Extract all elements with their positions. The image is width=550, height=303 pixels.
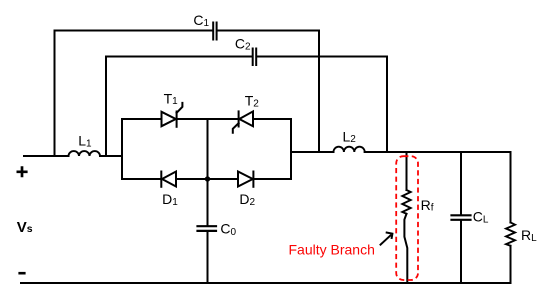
thyristor T1 bbox=[162, 112, 176, 126]
wire: L2 to load rail bbox=[365, 151, 511, 153]
diode D1 bbox=[160, 172, 162, 187]
capacitor C0 plates bbox=[198, 226, 217, 231]
svg-text:Vs: Vs bbox=[17, 219, 33, 236]
wire: right edge lower segment bbox=[510, 246, 512, 283]
svg-text:C2: C2 bbox=[235, 36, 251, 53]
diode D2 bbox=[238, 172, 253, 187]
inductor L1 bbox=[69, 151, 101, 156]
capacitor C1 plates bbox=[213, 23, 216, 40]
svg-text:Faulty Branch: Faulty Branch bbox=[289, 241, 375, 257]
wire: thyristor row right segment bbox=[253, 118, 291, 120]
thyristor T2 bbox=[239, 111, 253, 126]
svg-text:L2: L2 bbox=[343, 128, 357, 145]
svg-text:D2: D2 bbox=[239, 191, 255, 208]
wire: C1 right vertical drop bbox=[318, 31, 320, 153]
wire: bottom return bus bbox=[21, 282, 511, 284]
faulty branch dashed highlight box bbox=[396, 156, 418, 280]
wire: C2 left vertical riser bbox=[105, 57, 107, 157]
svg-text:T2: T2 bbox=[245, 93, 260, 110]
wire: C2 top horizontal right of cap bbox=[258, 56, 387, 58]
wire: diode row middle segment bbox=[176, 178, 238, 180]
wire: C1 left vertical riser bbox=[54, 31, 56, 157]
arrow to faulty branch bbox=[380, 232, 393, 245]
svg-text:Rf: Rf bbox=[421, 197, 434, 214]
wire: C1 top horizontal right of cap bbox=[218, 30, 319, 32]
wire: bridge right vertical bbox=[290, 119, 292, 179]
resistor RL bbox=[506, 223, 515, 246]
wire: bridge left vertical bbox=[121, 119, 123, 179]
capacitor C2 plates bbox=[253, 49, 257, 66]
svg-text:L1: L1 bbox=[78, 133, 92, 150]
wire: thyristor row middle segment bbox=[177, 118, 239, 120]
wire: diode row left segment bbox=[122, 178, 161, 180]
label + (source positive terminal) bbox=[17, 166, 28, 177]
wire: C2 right vertical drop bbox=[386, 57, 388, 153]
label - (source negative terminal) bbox=[18, 272, 25, 275]
wire: faulty branch upper segment bbox=[406, 152, 408, 190]
wire: center vertical (bridge mid to C0) bbox=[207, 119, 209, 225]
wire: C1 top horizontal left of cap bbox=[55, 30, 213, 32]
svg-text:CL: CL bbox=[473, 209, 489, 226]
inductor L2 bbox=[334, 147, 365, 152]
wire: C2 top horizontal left of cap bbox=[106, 56, 251, 58]
wire: bridge output to L2 bbox=[291, 151, 334, 153]
faulty branch broken-wire jog bbox=[404, 214, 407, 283]
wire: CL branch upper segment bbox=[460, 152, 462, 214]
resistor Rf bbox=[402, 190, 410, 214]
wire: source + to L1 bbox=[24, 155, 69, 157]
node: junction dot at diode row bbox=[205, 176, 210, 181]
svg-text:C1: C1 bbox=[193, 12, 209, 29]
wire: right edge upper segment bbox=[510, 152, 512, 223]
svg-text:D1: D1 bbox=[162, 191, 178, 208]
wire: CL branch lower segment bbox=[460, 221, 462, 283]
capacitor CL plates bbox=[452, 215, 471, 220]
svg-text:C0: C0 bbox=[220, 221, 236, 238]
wire: thyristor row left segment bbox=[122, 118, 162, 120]
svg-text:T1: T1 bbox=[164, 90, 179, 107]
wire: L1 to bridge left bbox=[100, 155, 122, 157]
svg-text:RL: RL bbox=[521, 227, 537, 244]
wire: C0 bottom to ground bus bbox=[207, 232, 209, 283]
wire: diode row right segment bbox=[253, 178, 291, 180]
